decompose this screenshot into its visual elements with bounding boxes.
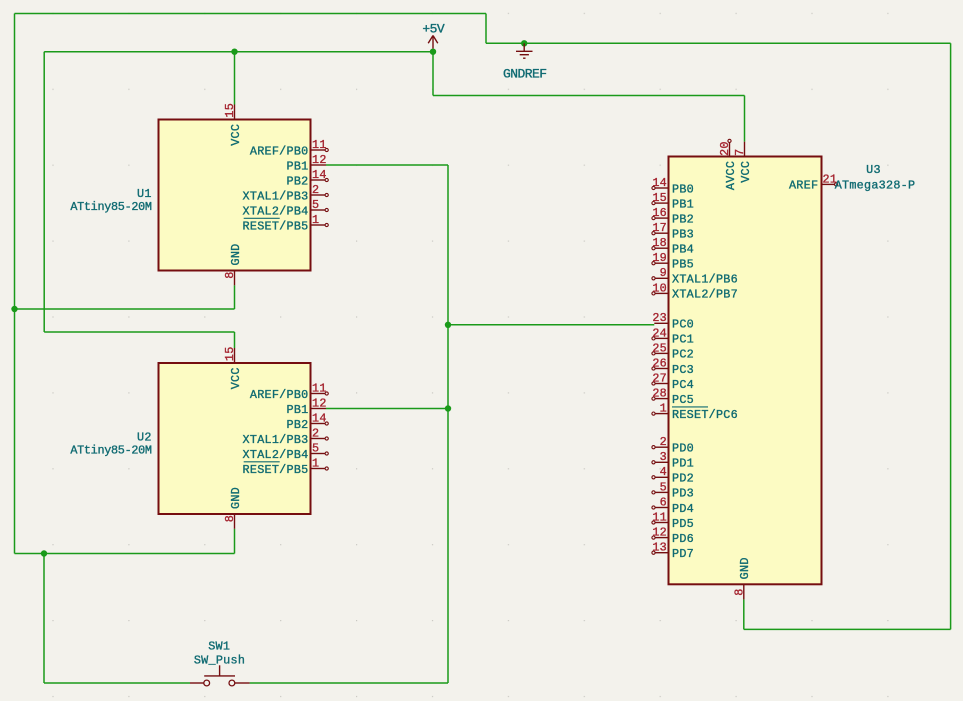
svg-text:PB1: PB1 (672, 197, 694, 211)
svg-text:GND: GND (738, 557, 752, 579)
junction at GNDREF symbol (521, 40, 527, 46)
wire GND net top horizontal (15, 13, 487, 15)
svg-text:GNDREF: GNDREF (503, 66, 547, 81)
svg-text:PB2: PB2 (287, 174, 309, 188)
svg-text:12: 12 (652, 526, 667, 540)
svg-text:17: 17 (652, 221, 667, 235)
svg-text:8: 8 (223, 515, 237, 522)
pin 26 PC3 of U3 (652, 356, 694, 376)
svg-text:AREF/PB0: AREF/PB0 (250, 388, 309, 402)
power symbol +5V (422, 21, 445, 48)
wire U2 PB1 horizontal (326, 408, 448, 410)
pin 11 AREF/PB0 of U1 (250, 138, 328, 158)
svg-text:1: 1 (312, 456, 319, 470)
wire GND drop to SW1 (43, 554, 45, 684)
svg-text:1: 1 (660, 402, 667, 416)
svg-text:XTAL1/PB3: XTAL1/PB3 (243, 189, 309, 203)
svg-text:ATtiny85-20M: ATtiny85-20M (70, 444, 152, 458)
wire +5V left vertical (43, 52, 45, 332)
svg-text:8: 8 (223, 271, 237, 278)
wire SW1 pin 2 to signal net (250, 682, 448, 684)
pin 25 PC2 of U3 (652, 341, 694, 361)
svg-text:GND: GND (229, 244, 243, 266)
wire U3 VCC pin drop (744, 96, 746, 142)
svg-text:PD6: PD6 (672, 532, 694, 546)
svg-text:PD0: PD0 (672, 442, 694, 456)
wire U1 VCC pin drop (234, 52, 236, 105)
pin 5 PD3 of U3 (652, 480, 694, 500)
svg-text:12: 12 (312, 153, 327, 167)
pin 13 PD7 of U3 (652, 541, 694, 561)
pin 2 PD0 of U3 (652, 435, 694, 455)
pin 8 GND of U1 (223, 244, 243, 286)
wire U2 GND pin drop (234, 529, 236, 554)
wire GND net left-side vertical (14, 14, 16, 554)
svg-text:PB0: PB0 (672, 182, 694, 196)
junction signal net U2 PB1 branch (445, 405, 451, 411)
wire U1 GND pin drop (234, 285, 236, 309)
svg-text:XTAL1/PB3: XTAL1/PB3 (243, 433, 309, 447)
pin 12 PB1 of U2 (287, 396, 327, 416)
ground GNDREF (503, 43, 547, 81)
svg-text:PC3: PC3 (672, 363, 694, 377)
pin 14 PB2 of U1 (287, 168, 329, 188)
svg-text:8: 8 (732, 588, 746, 595)
pin 10 XTAL2/PB7 of U3 (652, 281, 738, 301)
svg-text:AREF: AREF (789, 179, 818, 193)
svg-text:6: 6 (660, 495, 667, 509)
svg-text:ATmega328-P: ATmega328-P (835, 179, 916, 193)
svg-text:25: 25 (652, 341, 667, 355)
svg-text:14: 14 (312, 168, 327, 182)
junction GND branch U1 (11, 306, 17, 312)
svg-text:9: 9 (660, 266, 667, 280)
wire +5V horizontal to U2 VCC (44, 331, 234, 333)
svg-text:11: 11 (312, 138, 327, 152)
pin 5 XTAL2/PB4 of U2 (243, 441, 329, 461)
svg-text:27: 27 (652, 371, 667, 385)
svg-text:SW_Push: SW_Push (194, 654, 245, 668)
svg-text:AVCC: AVCC (724, 161, 738, 190)
svg-text:5: 5 (312, 441, 319, 455)
svg-text:GND: GND (229, 487, 243, 509)
pin 23 PC0 of U3 (652, 311, 694, 331)
pin 21 AREF of U3 (789, 172, 838, 192)
pin 28 PC5 of U3 (652, 387, 694, 407)
svg-text:2: 2 (312, 183, 319, 197)
svg-text:24: 24 (652, 326, 667, 340)
svg-text:PB4: PB4 (672, 243, 694, 257)
pin 18 PB4 of U3 (652, 236, 694, 256)
pin 1 RESET/PC6 of U3 (652, 402, 738, 422)
pin 15 VCC of U2 (223, 346, 243, 389)
svg-text:XTAL1/PB6: XTAL1/PB6 (672, 273, 738, 287)
junction at +5V symbol (430, 49, 436, 55)
pin 1 RESET/PB5 of U1 (243, 213, 329, 233)
svg-text:11: 11 (312, 381, 327, 395)
junction at U1 VCC feed (231, 49, 237, 55)
svg-text:18: 18 (652, 236, 667, 250)
svg-text:ATtiny85-20M: ATtiny85-20M (70, 200, 152, 214)
pin 15 VCC of U1 (223, 103, 243, 146)
pin 12 PD6 of U3 (652, 526, 694, 546)
svg-text:10: 10 (652, 281, 667, 295)
wire +5V drop at x433 (432, 52, 434, 96)
pin 16 PB2 of U3 (652, 206, 694, 226)
svg-text:1: 1 (312, 213, 319, 227)
svg-text:PB1: PB1 (287, 159, 309, 173)
svg-text:PC5: PC5 (672, 393, 694, 407)
svg-text:PC1: PC1 (672, 333, 694, 347)
svg-text:14: 14 (312, 411, 327, 425)
svg-text:U2: U2 (137, 430, 152, 444)
pin 7 VCC of U3 (733, 142, 753, 183)
pin 9 XTAL1/PB6 of U3 (652, 266, 738, 286)
svg-text:SW1: SW1 (208, 639, 230, 653)
svg-text:XTAL2/PB4: XTAL2/PB4 (243, 448, 309, 462)
wire to U3 PC0 (448, 324, 654, 326)
svg-text:PC0: PC0 (672, 318, 694, 332)
IC U2 ATtiny85-20M body (159, 363, 311, 514)
pin 2 XTAL1/PB3 of U1 (243, 183, 329, 203)
wire GND net horizontal through GNDREF (486, 42, 951, 44)
svg-text:3: 3 (660, 450, 667, 464)
svg-text:PD2: PD2 (672, 472, 694, 486)
pin 6 PD4 of U3 (652, 495, 694, 515)
junction GND branch SW1 (41, 550, 47, 556)
pin 17 PB3 of U3 (652, 221, 694, 241)
svg-text:U3: U3 (866, 163, 881, 177)
svg-text:RESET/PC6: RESET/PC6 (672, 408, 738, 422)
svg-text:PD4: PD4 (672, 502, 694, 516)
svg-text:19: 19 (652, 251, 667, 265)
svg-text:+5V: +5V (422, 21, 445, 36)
svg-text:PD1: PD1 (672, 457, 694, 471)
svg-text:PD7: PD7 (672, 547, 694, 561)
svg-text:12: 12 (312, 396, 327, 410)
pin 27 PC4 of U3 (652, 371, 694, 391)
svg-text:PB1: PB1 (287, 403, 309, 417)
wire GND branch to U1 GND (15, 308, 235, 310)
pin 3 PD1 of U3 (652, 450, 694, 470)
svg-text:26: 26 (652, 356, 667, 370)
pin 14 PB2 of U2 (287, 411, 329, 431)
svg-text:15: 15 (652, 191, 667, 205)
svg-text:7: 7 (733, 149, 747, 156)
svg-text:PB2: PB2 (672, 212, 694, 226)
pin 14 PB0 of U3 (652, 176, 694, 196)
svg-text:13: 13 (652, 541, 667, 555)
pin 8 GND of U3 (732, 557, 752, 599)
svg-text:XTAL2/PB7: XTAL2/PB7 (672, 288, 738, 302)
svg-text:5: 5 (312, 198, 319, 212)
pin 20 AVCC of U3 (718, 139, 738, 190)
switch SW1 SW_Push (190, 665, 250, 686)
svg-text:XTAL2/PB4: XTAL2/PB4 (243, 204, 309, 218)
svg-text:PD3: PD3 (672, 487, 694, 501)
svg-text:RESET/PB5: RESET/PB5 (243, 463, 309, 477)
svg-text:20: 20 (718, 141, 732, 156)
svg-text:2: 2 (660, 435, 667, 449)
wire GND net drop at x486 (485, 14, 487, 44)
pin 19 PB5 of U3 (652, 251, 694, 271)
wire signal net vertical at x448 (447, 165, 449, 683)
svg-text:PB2: PB2 (287, 418, 309, 432)
svg-text:PC2: PC2 (672, 348, 694, 362)
pin 8 GND of U2 (223, 487, 243, 529)
svg-text:2: 2 (312, 426, 319, 440)
pin 1 RESET/PB5 of U2 (243, 456, 329, 476)
pin 5 XTAL2/PB4 of U1 (243, 198, 329, 218)
IC U1 ATtiny85-20M body (159, 120, 311, 271)
svg-text:14: 14 (652, 176, 667, 190)
svg-text:PC4: PC4 (672, 378, 694, 392)
svg-text:11: 11 (652, 510, 667, 524)
pin 2 XTAL1/PB3 of U2 (243, 426, 329, 446)
wire U2 VCC pin drop (234, 332, 236, 348)
svg-text:PB3: PB3 (672, 228, 694, 242)
svg-text:PB5: PB5 (672, 258, 694, 272)
svg-text:4: 4 (660, 465, 667, 479)
junction signal net PC0 branch (445, 322, 451, 328)
svg-text:28: 28 (652, 387, 667, 401)
pin 12 PB1 of U1 (287, 153, 327, 173)
svg-text:15: 15 (223, 346, 237, 361)
svg-text:U1: U1 (137, 187, 152, 201)
wire GND net bottom horizontal to U3 GND (744, 628, 951, 630)
pin 24 PC1 of U3 (652, 326, 694, 346)
wire +5V horizontal top (44, 51, 433, 53)
svg-text:AREF/PB0: AREF/PB0 (250, 144, 309, 158)
svg-text:16: 16 (652, 206, 667, 220)
svg-text:VCC: VCC (229, 124, 243, 146)
pin 4 PD2 of U3 (652, 465, 694, 485)
svg-text:RESET/PB5: RESET/PB5 (243, 219, 309, 233)
wire GND net right-side vertical (950, 43, 952, 629)
svg-text:23: 23 (652, 311, 667, 325)
svg-text:VCC: VCC (739, 161, 753, 183)
svg-text:15: 15 (223, 103, 237, 118)
svg-text:PD5: PD5 (672, 517, 694, 531)
wire U1 PB1 horizontal (326, 164, 448, 166)
IC U3 ATmega328-P body (669, 157, 822, 585)
wire U3 GND pin drop (743, 599, 745, 629)
wire +5V horizontal to U3 VCC (433, 95, 745, 97)
wire GND branch to U2 GND (15, 553, 235, 555)
pin 15 PB1 of U3 (652, 191, 694, 211)
svg-text:5: 5 (660, 480, 667, 494)
svg-text:VCC: VCC (229, 367, 243, 389)
pin 11 PD5 of U3 (652, 510, 694, 530)
pin 11 AREF/PB0 of U2 (250, 381, 328, 401)
wire GND to SW1 pin 1 (44, 682, 190, 684)
